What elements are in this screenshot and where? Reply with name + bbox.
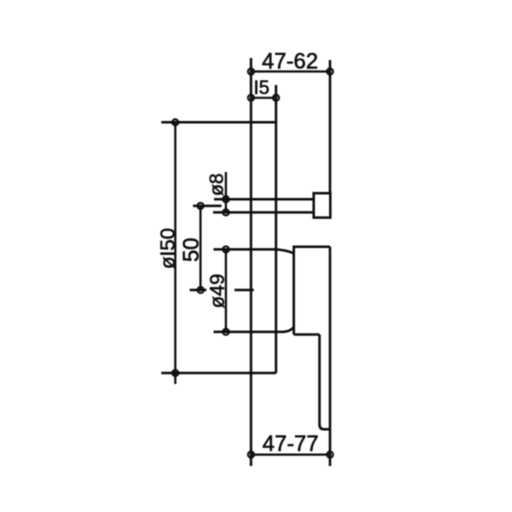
node dot 47-77 right [327,452,333,458]
wire right extension line top segment + cap edge [329,60,332,193]
node dot 50 top [198,203,204,209]
node dot o150 bottom [172,370,178,376]
svg-text:47-77: 47-77 [262,431,318,456]
svg-text:ø8: ø8 [206,173,228,196]
svg-text:øI50: øI50 [157,228,180,269]
wire neck top curve [276,249,294,253]
node dot 47-77 left [248,452,254,458]
dimension line o49 [225,249,227,332]
dimension line 47-77 [251,454,330,456]
dimension line 50 [199,206,201,290]
node dot o150 top [172,119,178,125]
node dot o49 bottom [223,329,229,335]
svg-text:47-62: 47-62 [262,49,318,74]
wire neck bottom ext + curve [214,327,294,332]
wire pipe centerline tick [193,205,222,208]
node dot 47-62 right [327,69,333,75]
node dot 50 bottom [198,287,204,293]
dimension line o8 [225,172,227,212]
svg-text:ø49: ø49 [207,274,229,308]
wire plate bottom edge + ext [161,372,276,375]
dimension line 15 [251,97,276,99]
wire handle center tick right [235,289,254,292]
pipe end cap [314,193,331,217]
wire neck top ext line [214,248,277,251]
wire plate front edge V2 [275,85,278,373]
node dot o49 top [223,246,229,252]
wire plate top edge + ext [161,121,276,124]
node dot o8 bottom [223,209,229,215]
svg-text:50: 50 [179,238,204,262]
wire pipe top edge [214,198,314,201]
handle lever [320,335,331,430]
handle body rectangle [294,247,330,335]
wire pipe bottom edge [213,211,314,214]
node dot o8 top [223,196,229,202]
wire handle center tick left [190,289,207,292]
node dot 15 right [273,95,279,101]
wire handle base bottom edge [294,333,320,336]
dimension line 47-62 [251,70,330,72]
svg-text:I5: I5 [254,78,270,99]
wire wall/back extension line V1 [250,58,253,466]
node dot 47-62 left [248,69,254,75]
dimension line o150 [174,122,176,384]
wire handle front edge + bottom extension [329,247,332,466]
node dot 15 left [248,95,254,101]
